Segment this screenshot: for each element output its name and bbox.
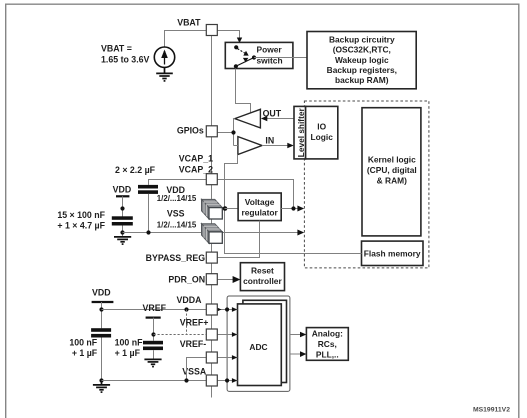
svg-text:backup RAM): backup RAM) — [335, 75, 389, 85]
voltage regulator box — [238, 193, 281, 221]
pin BYPASS_REG — [206, 252, 217, 263]
buffer IN triangle — [238, 137, 262, 155]
pin GPIOs — [206, 126, 217, 137]
svg-text:VCAP_2: VCAP_2 — [179, 165, 213, 175]
capacitor 100nF VREF — [143, 341, 163, 345]
backup circuitry box — [307, 32, 416, 89]
analog RCs PLL box — [306, 328, 348, 361]
wire regulator to BYPASS_REG — [217, 221, 259, 258]
wire VREF- into ADC — [217, 357, 237, 359]
svg-text:ADC: ADC — [249, 342, 267, 352]
svg-text:Backup registers,: Backup registers, — [327, 65, 397, 75]
wire VSSA into ADC — [217, 380, 237, 382]
power switch box — [225, 42, 293, 68]
pin VSSA — [206, 375, 217, 386]
capacitor 2x2.2uF — [138, 185, 158, 189]
svg-text:+ 1 µF: + 1 µF — [72, 348, 98, 358]
svg-text:MS19911V2: MS19911V2 — [473, 407, 510, 414]
svg-text:VREF: VREF — [143, 303, 167, 313]
wire VDDA line — [102, 309, 207, 311]
wire VDD node to flash memory — [225, 209, 362, 254]
node VSSA rail left dot — [99, 378, 103, 382]
svg-text:Flash memory: Flash memory — [364, 248, 421, 258]
capacitor 15x100nF — [112, 216, 133, 220]
wire ADC to analog box bottom — [290, 353, 305, 355]
svg-text:Reset: Reset — [251, 265, 274, 275]
wire VCAP to regulator output node — [217, 180, 293, 209]
svg-text:15 × 100 nF: 15 × 100 nF — [57, 210, 105, 220]
svg-text:Logic: Logic — [311, 132, 334, 142]
svg-text:VBAT: VBAT — [177, 18, 201, 28]
svg-text:(CPU, digital: (CPU, digital — [367, 165, 417, 175]
ADC outer group box — [227, 296, 290, 391]
svg-text:1/2/...14/15: 1/2/...14/15 — [157, 220, 197, 229]
svg-text:VDDA: VDDA — [177, 295, 203, 305]
current source VBAT symbol — [154, 47, 174, 67]
wire regulator output to kernel — [281, 208, 303, 210]
svg-text:(OSC32K,RTC,: (OSC32K,RTC, — [333, 45, 391, 55]
svg-text:100 nF: 100 nF — [69, 338, 97, 348]
ADC back card — [243, 300, 287, 382]
kernel logic box — [362, 108, 421, 236]
svg-text:2 × 2.2 µF: 2 × 2.2 µF — [115, 165, 156, 175]
svg-text:VCAP_1: VCAP_1 — [179, 154, 213, 164]
svg-text:IN: IN — [265, 136, 274, 146]
svg-text:controller: controller — [243, 276, 282, 286]
svg-text:Kernel logic: Kernel logic — [368, 154, 416, 164]
wire PDR_ON to reset controller — [217, 279, 239, 281]
svg-text:VBAT =: VBAT = — [101, 44, 132, 54]
ground under current source — [156, 67, 173, 81]
ground under VDD lower — [93, 381, 110, 393]
svg-text:1/2/...14/15: 1/2/...14/15 — [157, 194, 197, 203]
label VDD 1/2/...14/15 — [157, 185, 197, 203]
svg-text:+ 1 × 4.7 µF: + 1 × 4.7 µF — [57, 221, 105, 231]
IO logic box — [306, 106, 338, 158]
ADC front card — [238, 304, 282, 386]
dashed wire VREF to VREF+ — [154, 334, 207, 336]
svg-text:VDD: VDD — [113, 185, 132, 195]
wire VSSA rail — [102, 380, 207, 382]
pin VCAP — [206, 174, 217, 185]
svg-text:Wakeup logic: Wakeup logic — [335, 55, 389, 65]
svg-text:100 nF: 100 nF — [115, 338, 143, 348]
svg-text:Power: Power — [257, 44, 283, 54]
svg-text:VREF-: VREF- — [180, 339, 206, 349]
pin VBAT — [206, 25, 217, 36]
pin VREF- — [206, 352, 217, 363]
svg-text:BYPASS_REG: BYPASS_REG — [146, 253, 206, 263]
flash memory box — [362, 241, 424, 265]
svg-text:IO: IO — [317, 121, 326, 131]
wire IN from buffer to level shifter — [262, 145, 293, 147]
svg-text:regulator: regulator — [241, 208, 278, 218]
supply tee VREF — [146, 317, 161, 319]
level shifter box — [294, 106, 306, 158]
supply tee VDD upper — [116, 195, 129, 197]
wire VCAP to 2.2uF capacitors — [149, 180, 207, 185]
wire power switch to backup circuitry — [254, 57, 307, 59]
svg-text:GPIOs: GPIOs — [177, 125, 204, 135]
reset controller box — [240, 263, 284, 291]
svg-text:VSS: VSS — [167, 208, 185, 218]
wire VBAT to current source — [165, 31, 207, 48]
supply tee VDD lower — [92, 301, 114, 303]
buffer OUT triangle — [235, 109, 261, 128]
main pin rail — [211, 35, 213, 398]
wire VDD node to regulator — [225, 208, 239, 210]
wire buffers supply down to VDD node — [225, 155, 238, 209]
wire VBAT pin to power switch — [217, 31, 239, 40]
svg-text:VSSA: VSSA — [182, 367, 207, 377]
wire OUT from level shifter to buffer — [262, 118, 294, 120]
pin PDR_ON — [206, 274, 217, 285]
pin VREF+ — [206, 329, 217, 340]
svg-text:Analog:: Analog: — [312, 328, 343, 338]
ground under VREF capacitor — [144, 359, 161, 366]
wire VDDA into ADC — [217, 309, 237, 311]
svg-text:VDD: VDD — [92, 288, 111, 298]
pin VDDA — [206, 304, 217, 315]
svg-text:& RAM): & RAM) — [377, 176, 407, 186]
wire power switch output down to buffers — [236, 69, 251, 114]
VSS rail to kernel — [123, 232, 303, 234]
pin VDD 3D — [202, 199, 223, 219]
label VSS 1/2/...14/15 — [157, 208, 197, 229]
svg-text:Backup circuitry: Backup circuitry — [329, 35, 395, 45]
capacitor 100nF VDD — [91, 328, 111, 332]
wire VREF- to VSSA rail — [187, 358, 207, 381]
svg-text:+ 1 µF: + 1 µF — [115, 348, 141, 358]
svg-text:Level shifter: Level shifter — [296, 108, 306, 158]
node VDD dot — [223, 206, 228, 211]
svg-text:1.65 to 3.6V: 1.65 to 3.6V — [101, 55, 150, 65]
dashed VDD logic domain box — [304, 101, 429, 268]
ground under 15x100nF capacitor — [114, 237, 131, 244]
power switch symbol — [234, 45, 256, 68]
wire ADC to analog box top — [290, 334, 305, 336]
svg-text:VREF+: VREF+ — [180, 318, 209, 328]
svg-text:PLL,..: PLL,.. — [316, 350, 339, 360]
wire VREF+ into ADC — [217, 334, 237, 336]
pin VSS 3D — [202, 224, 223, 244]
wire GPIOs node — [217, 132, 233, 134]
svg-text:Voltage: Voltage — [245, 197, 275, 207]
svg-text:PDR_ON: PDR_ON — [168, 275, 205, 285]
svg-text:OUT: OUT — [263, 109, 282, 119]
svg-text:RCs,: RCs, — [318, 339, 337, 349]
label Backup circuitry — [327, 35, 397, 85]
